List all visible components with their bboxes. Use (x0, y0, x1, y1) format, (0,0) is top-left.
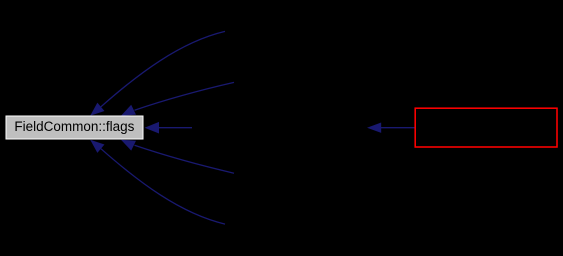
edge 5 (bottom outer curve) (90, 140, 225, 224)
node hidden (red border box) (415, 108, 557, 147)
edge 1 (top outer curve) (90, 31, 225, 115)
node FieldCommon::flags (grey filled box) (6, 116, 143, 139)
edge 4 (bottom inner curve) (121, 140, 234, 174)
edge 6 (straight arrow from red node) (367, 123, 415, 133)
svg-text:FieldCommon::flags: FieldCommon::flags (14, 119, 134, 134)
edge 2 (top inner curve) (121, 82, 234, 115)
edge 3 (middle short horizontal arrow) (145, 122, 192, 134)
